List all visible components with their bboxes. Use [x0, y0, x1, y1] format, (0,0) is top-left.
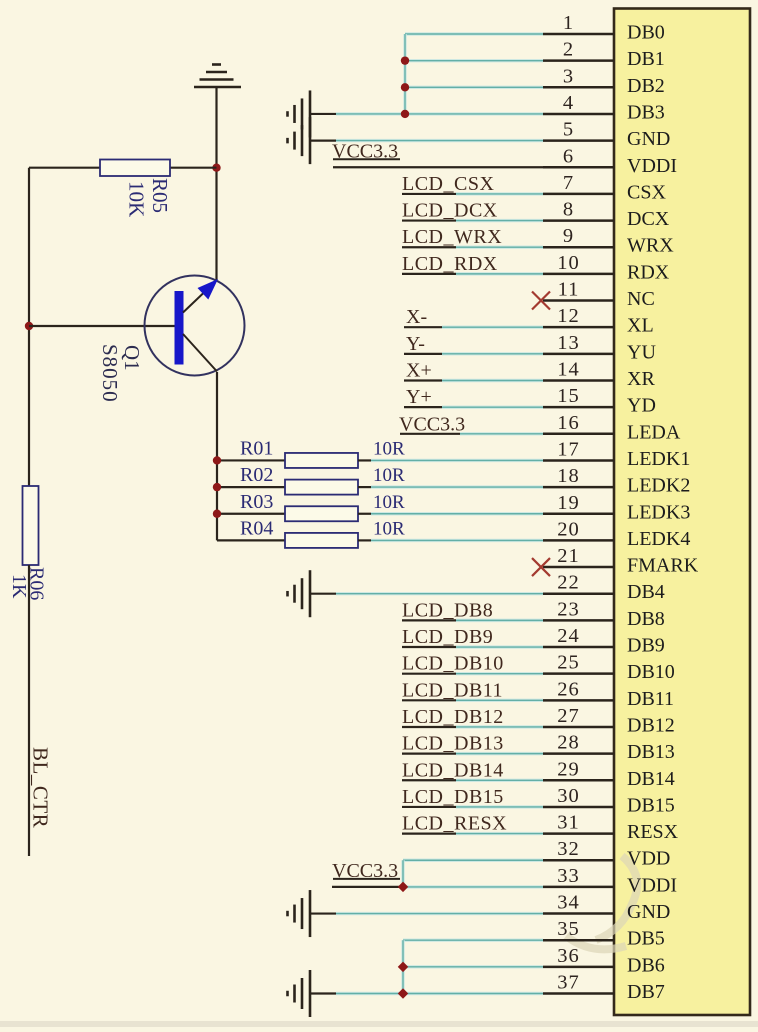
svg-text:DB1: DB1 — [627, 48, 665, 70]
pin 30 stub wire — [543, 806, 614, 809]
wire R04 right — [358, 539, 371, 541]
svg-text:YD: YD — [627, 395, 656, 417]
junction dot base node — [25, 322, 33, 330]
wire R05 right — [170, 167, 217, 169]
pin 25 stub wire — [543, 672, 614, 675]
wire pin 1 horizontal — [405, 32, 543, 35]
wire pin 6 VCC3.3 — [333, 166, 543, 168]
wire R01 left — [217, 459, 285, 461]
svg-text:R03: R03 — [240, 491, 273, 513]
svg-text:LCD_DB12: LCD_DB12 — [402, 706, 504, 728]
wire pin 23 (LCD_DB8) — [402, 619, 456, 621]
wire pin 8 (LCD_DCX) — [402, 219, 456, 221]
svg-text:DB4: DB4 — [627, 581, 665, 603]
svg-text:37: 37 — [557, 972, 580, 994]
svg-text:LCD_DB11: LCD_DB11 — [402, 679, 503, 701]
wire R02 left — [217, 486, 285, 488]
wire pin 22 to ground — [310, 593, 336, 595]
pin 19 stub wire — [543, 513, 614, 516]
transistor Q1 emitter diagonal — [183, 282, 215, 313]
junction dot R03 row — [213, 510, 221, 518]
junction dot R01 row — [213, 456, 221, 464]
pin 28 stub wire — [543, 752, 614, 755]
pin 21 stub wire — [543, 566, 614, 569]
svg-text:18: 18 — [557, 465, 580, 487]
svg-text:R05: R05 — [148, 178, 172, 213]
svg-text:22: 22 — [557, 572, 580, 594]
wire pin 31 (LCD_RESX) — [402, 832, 456, 834]
svg-text:27: 27 — [557, 705, 580, 727]
svg-text:28: 28 — [557, 732, 580, 754]
svg-text:4: 4 — [563, 92, 574, 114]
pin 32 stub wire — [543, 859, 614, 862]
wire R01 right — [358, 459, 371, 461]
svg-text:19: 19 — [557, 492, 580, 514]
wire pin 4 to ground — [310, 113, 336, 115]
svg-text:VDD: VDD — [627, 848, 670, 870]
svg-text:16: 16 — [557, 412, 580, 434]
svg-text:LEDK1: LEDK1 — [627, 448, 690, 470]
wire pin 28 (LCD_DB13) — [402, 753, 456, 755]
wire pin 7 (LCD_CSX) — [402, 193, 456, 195]
svg-text:32: 32 — [557, 838, 580, 860]
pin 7 stub wire — [543, 193, 614, 196]
svg-text:LCD_DB14: LCD_DB14 — [402, 759, 504, 781]
svg-text:DB11: DB11 — [627, 688, 674, 710]
ground symbol at pin 37 — [288, 970, 311, 1017]
svg-text:36: 36 — [557, 945, 580, 967]
wire pin 14 (X+) — [404, 379, 442, 381]
resistor R01 body — [285, 453, 358, 468]
svg-text:RDX: RDX — [627, 261, 670, 283]
svg-text:R01: R01 — [240, 437, 273, 459]
wire pin 32 horizontal — [403, 859, 543, 862]
wire pin 13 (Y-) — [404, 353, 442, 355]
svg-text:LCD_DB10: LCD_DB10 — [402, 653, 504, 675]
pin 23 stub wire — [543, 619, 614, 622]
svg-text:10K: 10K — [125, 181, 149, 217]
pin 24 stub wire — [543, 646, 614, 649]
svg-text:23: 23 — [557, 598, 580, 620]
wire base to Q1 — [29, 325, 175, 327]
svg-text:DB6: DB6 — [627, 954, 665, 976]
pin 15 stub wire — [543, 406, 614, 409]
svg-text:R02: R02 — [240, 464, 273, 486]
svg-text:NC: NC — [627, 288, 655, 310]
wire pin 9 (LCD_WRX) — [402, 246, 456, 248]
wire R02 to pin — [371, 485, 543, 488]
wire pin 29 (LCD_DB14) — [402, 779, 456, 781]
svg-text:24: 24 — [557, 625, 580, 647]
svg-text:WRX: WRX — [627, 235, 674, 257]
wire pin 2 horizontal — [405, 59, 543, 62]
svg-text:VDDI: VDDI — [627, 874, 677, 896]
wire pin 12 (X-) — [404, 326, 442, 328]
wire pin 5 to ground — [310, 140, 336, 142]
pin 9 stub wire — [543, 246, 614, 249]
resistor R02 body — [285, 480, 358, 495]
resistor R04 body — [285, 533, 358, 548]
junction dot pin3 — [401, 83, 409, 91]
wire R03 to pin — [371, 512, 543, 515]
wire pin 26 (LCD_DB11) — [402, 699, 456, 701]
svg-text:17: 17 — [557, 438, 580, 460]
wire pin 27 (LCD_DB12) — [402, 726, 456, 728]
svg-text:LCD_DB8: LCD_DB8 — [402, 599, 493, 621]
wire ground stem to transistor — [215, 87, 217, 281]
svg-text:Q1: Q1 — [120, 345, 144, 371]
svg-text:6: 6 — [563, 145, 574, 167]
svg-text:12: 12 — [557, 305, 580, 327]
wire pin 24 (LCD_DB9) — [402, 646, 456, 648]
svg-text:DB12: DB12 — [627, 714, 675, 736]
junction dot pin2 — [401, 56, 409, 64]
svg-text:LCD_DB13: LCD_DB13 — [402, 733, 504, 755]
transistor Q1 emitter arrow — [198, 279, 219, 300]
svg-text:10: 10 — [557, 252, 580, 274]
svg-text:3: 3 — [563, 65, 574, 87]
wire pin 36 horizontal — [403, 965, 543, 968]
pin 17 stub wire — [543, 459, 614, 462]
svg-text:5: 5 — [563, 119, 574, 141]
svg-text:LCD_DB9: LCD_DB9 — [402, 626, 493, 648]
pin 4 stub wire — [543, 113, 614, 116]
ground symbol top (Q1 emitter) — [194, 65, 241, 88]
svg-text:35: 35 — [557, 918, 580, 940]
wire bus pins 32-33 vertical — [401, 860, 404, 887]
wire pin 16 VCC3.3 — [400, 433, 460, 435]
svg-text:LCD_CSX: LCD_CSX — [402, 173, 494, 195]
svg-text:29: 29 — [557, 758, 580, 780]
svg-text:26: 26 — [557, 678, 580, 700]
junction diamond pin36 — [398, 962, 408, 972]
wire pin 3 horizontal — [405, 86, 543, 89]
svg-text:11: 11 — [558, 279, 580, 301]
svg-text:LEDK3: LEDK3 — [627, 501, 690, 523]
wire bus pins 1-4 vertical — [403, 34, 406, 114]
svg-text:VCC3.3: VCC3.3 — [399, 413, 465, 435]
pin 2 stub wire — [543, 59, 614, 62]
wire Q1 collector vertical — [216, 372, 218, 540]
wire R02 right — [358, 486, 371, 488]
no-ERC X mark pin 11 — [532, 292, 550, 310]
wire R04 to pin — [371, 539, 543, 542]
junction diamond pin33 — [398, 882, 408, 892]
pin 37 stub wire — [543, 992, 614, 995]
wire pin 25 (LCD_DB10) — [402, 673, 456, 675]
svg-text:DB8: DB8 — [627, 608, 665, 630]
pin 35 stub wire — [543, 939, 614, 942]
svg-text:31: 31 — [557, 812, 580, 834]
pin 10 stub wire — [543, 273, 614, 276]
svg-text:30: 30 — [557, 785, 580, 807]
svg-text:XL: XL — [627, 315, 654, 337]
pin 29 stub wire — [543, 779, 614, 782]
svg-text:DB9: DB9 — [627, 635, 665, 657]
wire pin 15 (Y+) — [404, 406, 442, 408]
svg-text:1: 1 — [563, 12, 574, 34]
page bottom edge shading — [0, 1021, 758, 1027]
pin 12 stub wire — [543, 326, 614, 329]
transistor Q1 collector diagonal — [183, 334, 217, 372]
svg-text:21: 21 — [557, 545, 580, 567]
svg-text:7: 7 — [563, 172, 574, 194]
pin 13 stub wire — [543, 353, 614, 356]
svg-text:10R: 10R — [373, 492, 405, 513]
junction dot pin4 — [401, 110, 409, 118]
resistor R06 body — [23, 486, 39, 565]
wire bus pins 35-37 vertical — [401, 940, 404, 993]
pin 26 stub wire — [543, 699, 614, 702]
svg-text:DB5: DB5 — [627, 928, 665, 950]
svg-text:14: 14 — [557, 358, 580, 380]
svg-text:X-: X- — [406, 306, 427, 328]
watermark faint — [566, 856, 637, 949]
svg-text:LEDA: LEDA — [627, 421, 681, 443]
ground symbol at pin 22 — [288, 570, 311, 617]
svg-text:DB7: DB7 — [627, 981, 665, 1003]
no-ERC X mark pin 21 — [532, 558, 550, 576]
svg-text:10R: 10R — [373, 465, 405, 486]
svg-text:10R: 10R — [373, 438, 405, 459]
pin 3 stub wire — [543, 86, 614, 89]
wire R03 right — [358, 513, 371, 515]
svg-text:DB15: DB15 — [627, 794, 675, 816]
svg-text:XR: XR — [627, 368, 655, 390]
svg-text:25: 25 — [557, 652, 580, 674]
svg-text:RESX: RESX — [627, 821, 679, 843]
pin 14 stub wire — [543, 379, 614, 382]
svg-text:LEDK4: LEDK4 — [627, 528, 690, 550]
pin 18 stub wire — [543, 486, 614, 489]
transistor Q1 base bar — [175, 291, 184, 365]
svg-text:DB14: DB14 — [627, 768, 675, 790]
svg-text:CSX: CSX — [627, 181, 666, 203]
pin 22 stub wire — [543, 592, 614, 595]
svg-text:DB10: DB10 — [627, 661, 675, 683]
pin 36 stub wire — [543, 966, 614, 969]
transistor Q1 circle — [145, 276, 245, 376]
svg-text:9: 9 — [563, 225, 574, 247]
svg-text:LCD_RDX: LCD_RDX — [402, 253, 498, 275]
wire pin 34 to ground — [310, 912, 336, 914]
svg-text:LCD_WRX: LCD_WRX — [402, 226, 502, 248]
ground symbol at pin 34 — [288, 890, 311, 937]
wire pin 30 (LCD_DB15) — [402, 806, 456, 808]
pin 5 stub wire — [543, 139, 614, 142]
svg-text:Y+: Y+ — [406, 386, 432, 408]
wire R03 left — [217, 513, 285, 515]
svg-text:10R: 10R — [373, 518, 405, 539]
svg-text:20: 20 — [557, 518, 580, 540]
svg-text:15: 15 — [557, 385, 580, 407]
junction diamond pin37 — [398, 988, 408, 998]
svg-text:VDDI: VDDI — [627, 155, 677, 177]
connector P1 body — [614, 9, 750, 1016]
svg-text:LCD_DB15: LCD_DB15 — [402, 786, 504, 808]
pin 8 stub wire — [543, 219, 614, 222]
svg-text:S8050: S8050 — [98, 344, 122, 403]
ground symbol at pins 4-5 — [288, 90, 311, 164]
svg-text:BL_CTR: BL_CTR — [29, 747, 53, 828]
svg-text:X+: X+ — [406, 359, 432, 381]
pin 1 stub wire — [543, 33, 614, 36]
junction dot R02 row — [213, 483, 221, 491]
wire pin 35 horizontal — [403, 939, 543, 942]
pin 16 stub wire — [543, 433, 614, 436]
pin 6 stub wire — [543, 166, 614, 169]
wire R06 top — [28, 485, 30, 487]
wire pin 10 (LCD_RDX) — [402, 273, 456, 275]
svg-text:13: 13 — [557, 332, 580, 354]
pin 33 stub wire — [543, 886, 614, 889]
svg-text:R04: R04 — [240, 517, 273, 539]
svg-text:GND: GND — [627, 128, 670, 150]
wire R05 left to corner — [29, 167, 100, 169]
wire pin 33 VCC3.3 — [332, 886, 403, 888]
svg-text:LCD_RESX: LCD_RESX — [402, 813, 507, 835]
resistor R05 body — [100, 160, 170, 177]
resistor R03 body — [285, 506, 358, 521]
pin 27 stub wire — [543, 726, 614, 729]
svg-text:33: 33 — [557, 865, 580, 887]
svg-text:FMARK: FMARK — [627, 555, 699, 577]
svg-text:GND: GND — [627, 901, 670, 923]
pin 11 stub wire — [543, 299, 614, 302]
svg-text:DB0: DB0 — [627, 22, 665, 44]
wire left vertical (base net) — [28, 168, 30, 486]
wire R04 left — [217, 539, 285, 541]
svg-text:DB2: DB2 — [627, 75, 665, 97]
svg-text:LEDK2: LEDK2 — [627, 475, 690, 497]
wire R01 to pin — [371, 459, 543, 462]
wire pin 37 to ground — [310, 992, 336, 994]
wire BL_CTR vertical — [28, 565, 30, 856]
pin 20 stub wire — [543, 539, 614, 542]
svg-text:DCX: DCX — [627, 208, 670, 230]
pin 31 stub wire — [543, 832, 614, 835]
svg-text:34: 34 — [557, 892, 580, 914]
svg-text:LCD_DCX: LCD_DCX — [402, 200, 498, 222]
junction dot R05 right — [212, 164, 220, 172]
svg-text:1K: 1K — [8, 574, 30, 599]
svg-text:2: 2 — [563, 39, 574, 61]
pin 34 stub wire — [543, 912, 614, 915]
svg-text:DB3: DB3 — [627, 101, 665, 123]
svg-text:YU: YU — [627, 341, 656, 363]
svg-text:Y-: Y- — [406, 333, 425, 355]
svg-text:DB13: DB13 — [627, 741, 675, 763]
svg-text:8: 8 — [563, 199, 574, 221]
